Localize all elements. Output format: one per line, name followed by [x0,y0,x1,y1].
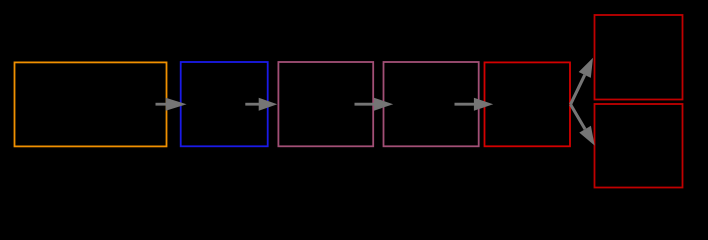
output box bottom (red) [595,104,683,188]
stage box 3 (pink) [278,62,373,146]
stage box 2 (blue) [181,62,268,146]
stage box 1 (orange) [15,62,167,146]
arrow 4 (box4 to box5) [455,98,494,111]
arrow 2 (box2 to box3) [245,98,277,111]
stage box 5 (red) [485,62,571,146]
arrow 1 (box1 to box2) [156,98,187,111]
stage box 4 (pink) [384,62,479,146]
output box top (red) [595,15,683,100]
arrow 5 (box5 to top output, diagonal up) [571,58,594,105]
arrow 3 (box3 to box4) [355,98,394,111]
arrow 6 (box5 to bottom output, diagonal down) [571,104,595,145]
